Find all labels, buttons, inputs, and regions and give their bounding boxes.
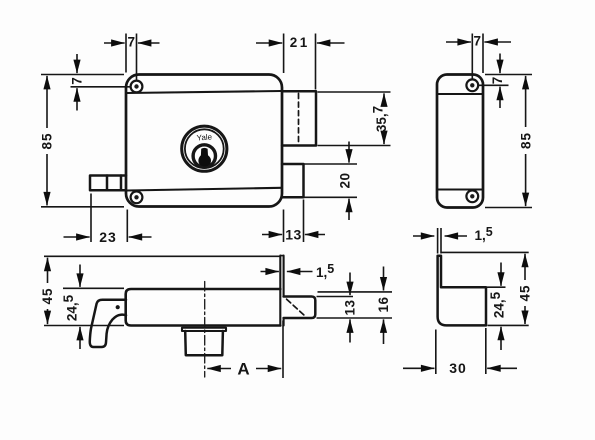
latch bevel dashed diagonal xyxy=(287,299,305,316)
side view top seam xyxy=(438,93,482,95)
dim 13 front: extension lines xyxy=(284,200,304,243)
handle lever top view xyxy=(90,300,126,347)
dim 7 front vertical: screw extension line xyxy=(71,86,131,88)
dim 7 side vertical: screw extension line xyxy=(479,84,509,86)
dim 7 front top: arrows xyxy=(104,42,125,44)
side view screw top xyxy=(466,79,478,91)
dim 16 top view: extension line xyxy=(318,291,393,293)
dim 45 strike plate: dimension line + arrows xyxy=(524,254,526,280)
dim 30: arrows xyxy=(403,367,434,369)
cylinder housing flange top view xyxy=(182,328,226,331)
side view screw bottom xyxy=(466,190,478,202)
top view faceplate edge lines xyxy=(279,256,281,326)
svg-text:Yale: Yale xyxy=(196,132,213,142)
front view lock body xyxy=(126,75,282,207)
svg-text:24,5: 24,5 xyxy=(61,294,80,321)
svg-text:35,7: 35,7 xyxy=(371,106,390,132)
dim 13 top view: extension lines xyxy=(317,297,393,319)
dim 24,5 top view: arrows xyxy=(79,265,81,287)
svg-text:1,5: 1,5 xyxy=(316,262,334,280)
cylinder plug xyxy=(193,145,215,167)
dim 20: extension lines xyxy=(305,164,358,197)
dim A: arrows pointing outward xyxy=(207,368,231,370)
dim 7 side vertical: arrows xyxy=(499,54,501,74)
screw bottom-left xyxy=(131,191,143,203)
dim 85 side: extension lines xyxy=(485,75,532,208)
dim 21: arrows xyxy=(256,42,282,44)
dim 23: extension lines xyxy=(91,194,127,243)
latch top view xyxy=(284,297,316,319)
dim 21: extension lines xyxy=(284,34,316,90)
dim 20: arrows xyxy=(348,142,350,163)
svg-text:7: 7 xyxy=(128,35,136,50)
top view body xyxy=(126,289,281,326)
side view body xyxy=(437,75,483,208)
svg-text:7: 7 xyxy=(474,34,482,49)
svg-text:13: 13 xyxy=(285,227,302,243)
svg-text:20: 20 xyxy=(338,172,353,188)
svg-text:24,5: 24,5 xyxy=(488,291,507,318)
left slider bolt xyxy=(90,176,126,191)
cylinder housing block top view xyxy=(185,331,223,355)
dim 13 front: arrows xyxy=(262,234,282,236)
keyway silhouette xyxy=(198,148,211,167)
dim 45 strike plate: extension lines xyxy=(441,252,529,325)
svg-text:7: 7 xyxy=(70,77,85,85)
svg-text:85: 85 xyxy=(40,132,55,149)
dim 24,5 strike plate: extension line xyxy=(487,286,506,288)
dim 45 top view: dimension line + arrows xyxy=(47,258,49,283)
dim 85 front: extension lines xyxy=(41,75,124,207)
strike plate L-profile xyxy=(438,256,486,326)
side view bottom seam xyxy=(438,188,482,190)
svg-text:45: 45 xyxy=(518,284,533,301)
front view bottom cover seam line xyxy=(127,188,281,191)
svg-text:16: 16 xyxy=(376,296,391,312)
dim 24,5 strike plate: arrows xyxy=(500,263,502,286)
deadbolt block front view xyxy=(282,164,304,197)
dim 16 top view: arrows xyxy=(383,267,385,291)
svg-text:21: 21 xyxy=(290,35,310,50)
svg-text:85: 85 xyxy=(518,132,533,149)
svg-text:A: A xyxy=(237,360,249,379)
svg-text:1,5: 1,5 xyxy=(475,225,493,243)
svg-text:23: 23 xyxy=(99,229,117,245)
front view top cover seam line xyxy=(127,91,281,93)
dim 23: arrows xyxy=(64,236,90,238)
svg-text:13: 13 xyxy=(343,299,358,315)
dim 7 front vertical: arrows xyxy=(76,54,78,73)
latch hidden dashed line xyxy=(298,94,300,144)
latch block front view xyxy=(282,91,316,145)
dim A: right extension line xyxy=(282,321,284,379)
dim 85 front: dimension line + arrows xyxy=(46,76,48,128)
svg-text:45: 45 xyxy=(40,287,55,304)
cylinder centre line xyxy=(204,282,206,378)
dim 7 front top: extension lines xyxy=(126,34,137,80)
dim 13 top view: arrows xyxy=(349,273,351,296)
cylinder outer rings xyxy=(182,126,227,171)
dim 35,7: extension lines xyxy=(318,92,391,146)
svg-text:7: 7 xyxy=(490,77,505,85)
dim 85 side: dimension line + arrows xyxy=(525,76,527,127)
dim 7 side top: arrows xyxy=(446,41,471,43)
dim 35,7: dimension line + arrows xyxy=(383,93,385,105)
dim 1,5 strike plate: arrows xyxy=(413,235,434,237)
dim 45 top view: extension lines xyxy=(44,256,280,325)
dim 1,5 top view: arrows xyxy=(261,271,279,273)
svg-text:30: 30 xyxy=(449,360,467,376)
handle pivot dot xyxy=(116,305,120,309)
dim 30: extension lines xyxy=(436,328,486,374)
screw top-left xyxy=(131,81,143,93)
dim 24,5 top view: extension line xyxy=(63,287,124,289)
dim 1,5 strike plate: extension lines xyxy=(438,228,441,254)
dim 7 side top: extension lines xyxy=(472,34,483,79)
